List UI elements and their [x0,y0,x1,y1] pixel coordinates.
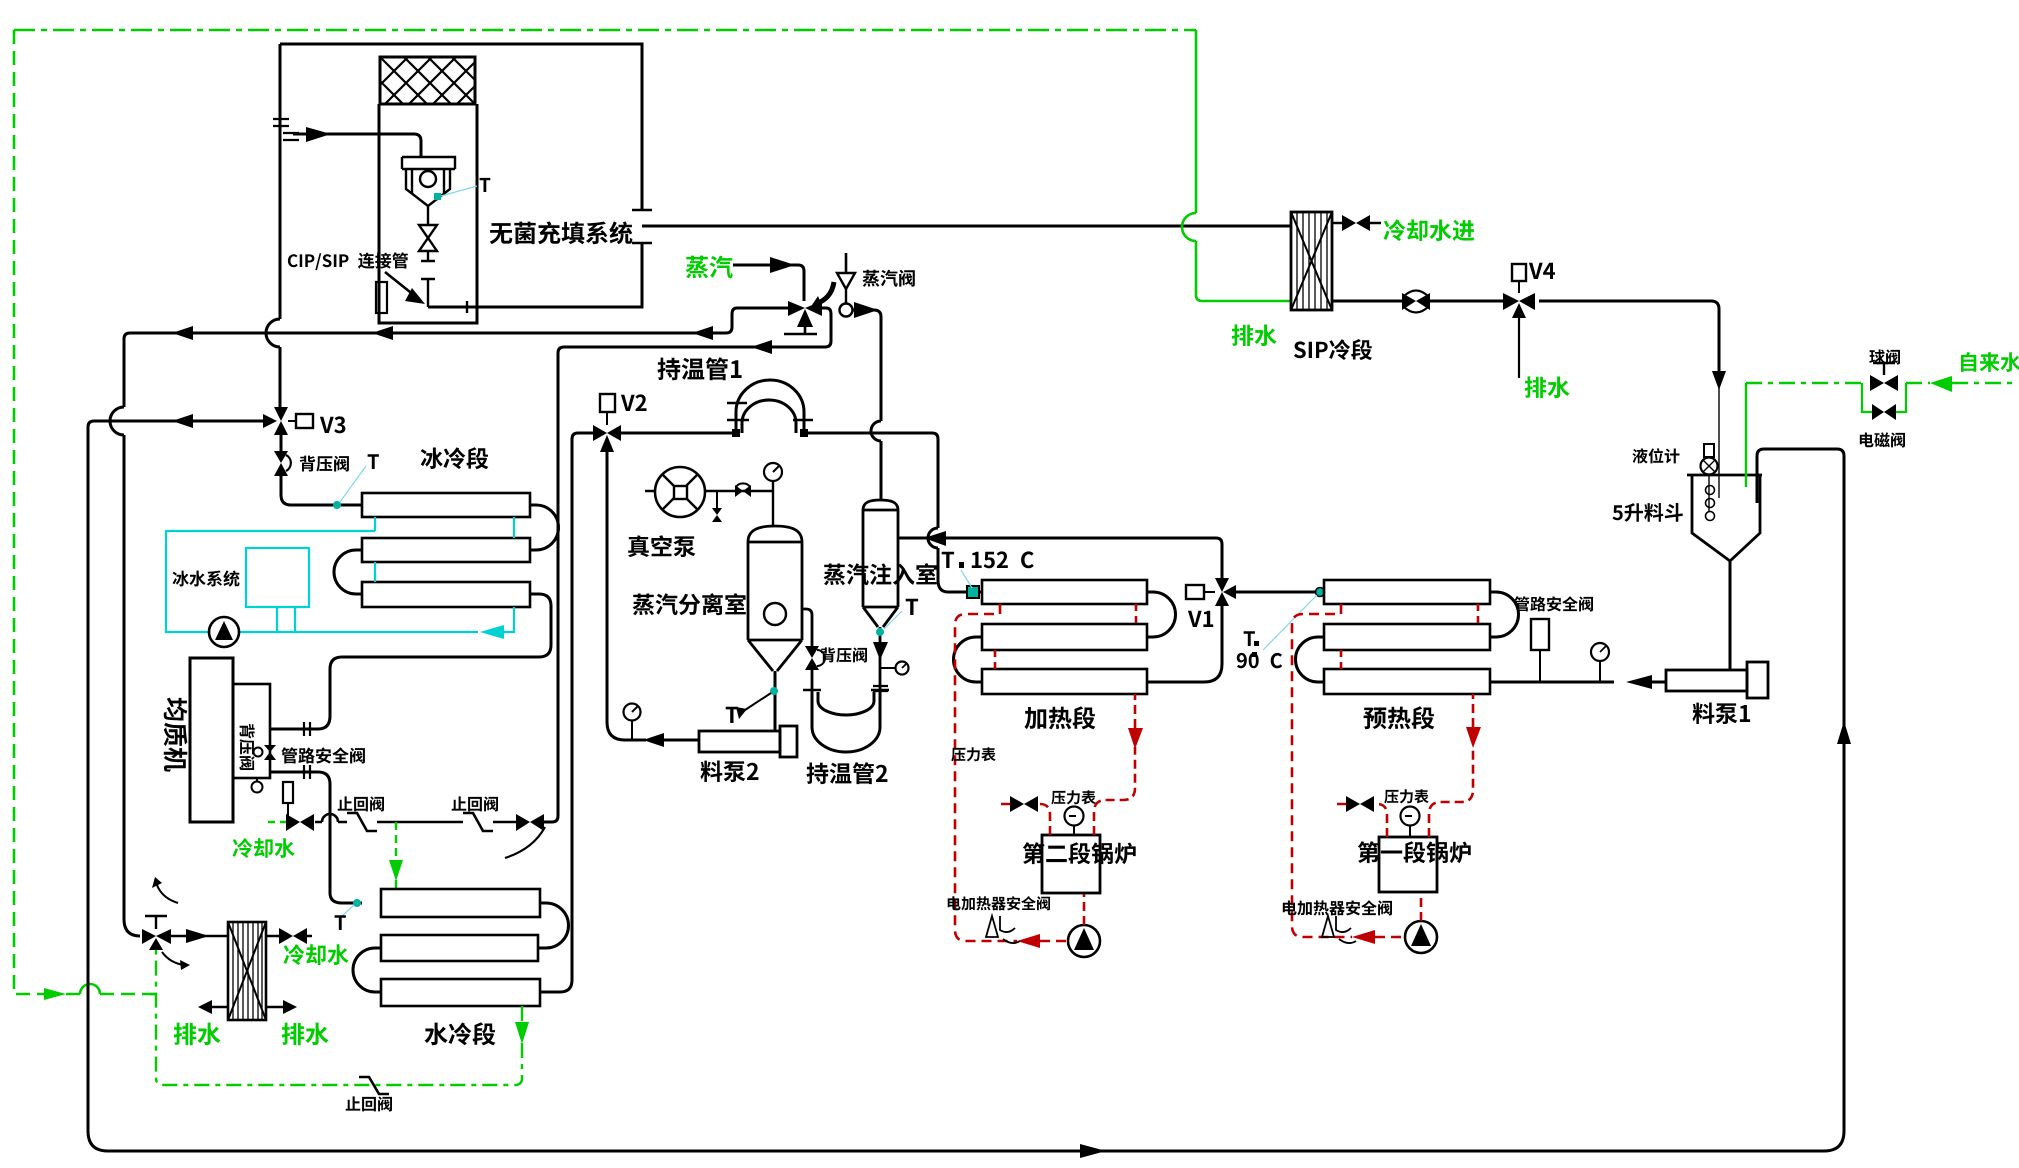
homogenizer head block [233,684,270,778]
label 管路安全阀 [1514,596,1593,611]
green hop over black line x=90 [80,984,100,994]
hop of injection feed riser over chamber return line [928,528,938,548]
vacuum pump [655,467,705,517]
green tap water line with ball valve and bypass [1746,382,2017,384]
pressure gauge on pump line [1599,661,1601,682]
through valve after SIP cooler [1402,293,1416,310]
boiler 2 supply up to heating tube3 [1094,694,1135,835]
back pressure valve below V3 [274,451,288,463]
label 90 C [1237,653,1282,668]
feed pump 2 [699,731,780,752]
small drain valve under vacuum line [716,491,718,508]
label 压力表 [951,747,995,761]
steam control valve (angle) [845,253,848,273]
label 水冷段 [425,1022,496,1045]
hop of cooling line over vertical pipe [322,814,338,822]
inlet arrow [306,127,331,142]
label V2 [621,394,647,411]
node: injection outlet temperature dot [876,628,884,636]
level gauge [1704,444,1714,457]
valve V1 (3-way) [1215,578,1229,592]
90C degree dot and T dot [1254,641,1259,646]
homogenizer bottom port to water cooling coil [270,772,362,903]
flow indicator arcs at drain valve [157,885,178,903]
red arrow on boiler2 return [1017,934,1040,948]
label 152 C [972,551,1034,568]
inlet pipe with flange unions at left [273,119,299,140]
preheat section tube 3 [1324,669,1490,694]
heating section tube 3 [982,669,1147,694]
holding tube 1 inner arch [742,400,796,433]
check valve 2 [463,813,493,831]
heater safety valve symbol 1 [1322,916,1334,937]
pipe from drain valve to drain cooler [171,935,228,938]
label 排水 [282,1023,329,1046]
valve V2 (3-way) [593,425,607,441]
cooling water line with check valves y=822 [315,821,516,824]
thin feed line into hopper with arrow [1718,371,1720,498]
green branch down to water cooling shell [395,822,397,889]
pump to boiler 2 [1083,893,1086,925]
upper return line y=333 to V3 riser [124,308,788,936]
label 压力表 [1051,790,1095,804]
CIP/SIP connection tee [421,279,435,307]
filler inner tall cabinet [379,104,477,323]
label 蒸汽分离室 [633,593,746,615]
label T [726,707,738,723]
pump to boiler 1 [1420,892,1423,921]
water coil left bend tube2-tube3 [353,948,381,992]
green drain from water cooling shell [156,948,522,1085]
node: preheat outlet temperature dot [1316,588,1325,597]
CIP/SIP hose diagonal [385,272,420,300]
CIP/SIP stub pipe [376,282,387,313]
label 第二段锅炉 [1023,842,1136,864]
wire: green CIP left vertical dash line [14,30,156,994]
arrows on upper return line [692,326,713,340]
preheat right bend tube1-tube2 [1490,592,1519,637]
V4 drain line [1518,318,1520,378]
crosshatch filter rect in filler [380,57,475,104]
flow arrow on injection outlet [873,642,888,660]
red hot water circuit of heating section: tube1 stub to left down line [955,604,1017,941]
boiler 1 vent line with valve [1337,804,1387,837]
preheat left bend tube2-tube3 [1296,637,1325,682]
drain cooler outlet valve [266,935,312,938]
node: separator temperature dot [770,687,778,695]
vacuum line [645,490,773,492]
label 电磁阀 [1860,432,1905,447]
pressure gauge on pump2 line [631,721,633,740]
cooling water inlet valve [286,814,300,831]
label T [906,599,918,615]
heating section tube 1 [982,580,1147,604]
water cooling coil tube 2 [381,935,538,961]
preheat section tube 1 [1324,580,1490,604]
V1 to preheat section [1236,591,1324,594]
label 压力表 [1384,789,1428,803]
holding tube flange ticks [727,403,813,420]
hopper (5L) [1687,475,1762,561]
hop arc of left pipe over return line [266,319,280,347]
steam separation chamber vessel [748,526,802,671]
ice cooling coil tube 2 [362,538,530,562]
V2 bottom port down to pump 2 line [607,452,699,740]
green feed water line into hopper [1745,383,1747,487]
drain 3-way valve bottom left [142,929,156,944]
holding tube 2 flange ticks [803,689,889,691]
hopper outlet to feed pump 1 [1729,561,1732,670]
label 背压阀 [240,724,255,770]
label 无菌充填系统 [490,221,633,244]
tick on box bottom pipe [466,301,468,313]
label 排水 [1232,324,1277,346]
label T [942,552,954,568]
ice water piping [166,517,514,632]
label 液位计 [1632,448,1679,463]
flange unions on homogenizer bottom port [304,765,310,779]
label 冰冷段 [421,447,489,469]
label 料泵2 [701,761,759,783]
red circuit preheat: tube1 stub down left [1292,604,1352,937]
label 球阀 [1869,349,1900,364]
T152 subscript dot [959,562,964,568]
back pressure valve at separator [805,646,819,658]
label 冷却水 [284,944,349,965]
label T [480,178,491,192]
cyan arrow on ice water return [480,625,504,639]
label 管路安全阀 [282,747,365,763]
box left vertical pipe with hop over y=333 line [279,44,282,408]
label 电加热器安全阀 [1283,900,1392,915]
hop of inner-left riser over y=421 line [110,407,124,435]
label 排水 [1525,376,1570,398]
label 5升料斗 [1613,503,1683,522]
line safety valve symbol [283,782,293,803]
gauge under homogenizer head [256,778,258,782]
label 排水 [174,1023,221,1046]
aseptic filler box outline [280,44,642,307]
ice coil right bend tube1-tube2 [530,505,559,550]
node: nozzle temperature dot [434,193,441,200]
label 持温管2 [807,762,888,784]
red line arrow segment to pump [1040,940,1068,943]
preheat tube3 line to feed pump 1 [1490,681,1666,684]
chamber return line from heater [898,538,1222,578]
ice water pump [209,617,239,647]
SIP cooling exchanger [1291,212,1332,310]
flange unions on injection outlet [873,686,888,691]
small inline valve on vacuum line [735,485,743,497]
label 蒸汽注入室 [824,563,937,585]
valve V4 (3-way) [1503,293,1519,310]
union flanges on box right edge [632,210,652,243]
label 冷却水进 [1384,219,1475,241]
water coil right bend tube1-tube2 [538,903,569,948]
label 均质机 [164,698,188,772]
holding tube 2 outer U [812,692,880,752]
shutoff valve on cooling line right [516,814,530,831]
boiler 1 pressure gauge [1409,825,1411,837]
holding tube 1 outer arch [736,380,804,433]
green cooling water stub [268,821,286,823]
steam injection chamber vessel [863,500,898,627]
steam 3-way valve [788,301,805,316]
pipe from back pressure valve to ice cooling coil [281,476,362,505]
label 止回阀 [452,796,498,811]
holding tube 2 left leg [811,670,814,692]
boiler 1 supply up to preheat tube3 [1429,694,1473,837]
node: ice section inlet temperature dot [333,501,341,509]
green arrow right at bottom-left junction [44,988,66,1000]
heating coil right bend tube1-tube2 [1147,592,1176,637]
label 第一段锅炉 [1358,841,1471,863]
boiler 2 circulation pump [1068,925,1100,957]
label SIP冷段 [1294,339,1372,360]
label 自来水 [1961,352,2019,372]
main pipe filler to SIP cooler [642,225,1291,228]
label 蒸汽阀 [863,270,915,287]
line safety valve on pump line [1539,650,1541,682]
label 冰水系统 [173,570,240,586]
label V1 [1188,611,1213,627]
boiler 1 circulation pump [1405,921,1437,953]
flange unions on homogenizer top port [304,722,310,736]
label 真空泵 [628,535,695,557]
label 背压阀 [821,647,867,662]
node: heating outlet temperature square [967,586,979,598]
label V3 [320,416,346,433]
ice coil left bend tube2-tube3 [334,550,362,594]
arrow on bottom product line [1080,1144,1106,1158]
label T [335,915,346,930]
gauge branch on injection outlet [881,667,895,669]
heating section tube 2 [982,624,1147,650]
check valve 1 [347,813,377,831]
ice coil outlet down to homogenizer top port [270,594,551,729]
valve below nozzle [427,206,429,225]
V3 feed line y=421 and outer product loop to hopper [88,421,1844,1151]
heating tube3 to valve V1 [1147,606,1222,682]
valve V3 (3-way) [274,407,288,421]
boiler 2 pressure gauge [1073,825,1075,835]
ice cooling coil tube 3 [362,582,530,607]
steam line to injection chamber [853,310,881,501]
cooling water inlet valve at SIP cooler [1332,222,1381,225]
red shell interconnects preheat coil [1341,604,1478,669]
boiler 2 (second stage) [1042,835,1100,893]
red shell interconnects heating coil [995,604,1136,669]
injection chamber outlet into holding tube 2 [879,627,882,692]
water coil outlet riser to V2 [540,433,593,992]
label 止回阀 [338,796,384,811]
feed pump 1 [1666,670,1747,691]
water cooling coil tube 1 [381,889,540,917]
boiler 2 vent line with valve [1001,804,1050,835]
label 蒸汽 [686,256,733,279]
label 料泵1 [1693,703,1751,725]
label 背压阀 [300,456,349,472]
second return line y=347 from steam valve to right loop riser [544,308,831,822]
label 加热段 [1025,706,1096,729]
homogenizer body [190,658,233,822]
solenoid valve [1872,404,1884,420]
green hop over main pipe [1182,213,1196,241]
label T [1244,631,1255,646]
boiler 1 (first stage) [1379,837,1437,892]
ball valve [1870,375,1884,391]
label CIP/SIP 连接管 [288,252,408,270]
curved actuator arrow at steam valve [816,282,834,304]
solenoid bypass [1862,383,1906,412]
label 预热段 [1364,706,1435,729]
arrow on y=347 line [751,340,772,354]
label 持温管1 [658,357,742,380]
holding tube 2 inner U [818,692,874,715]
valve lever diagonal [505,827,545,858]
vacuum gauge over separator [772,481,774,527]
water cooling coil tube 3 [381,979,540,1006]
small back pressure valve on head block [264,745,276,752]
heater safety valve symbol 2 [986,916,998,937]
SIP outlet line to V4 [1332,301,1719,371]
ice cooling coil tube 1 [362,493,530,517]
drain cooler hatched exchanger [228,922,266,1020]
arrow up on right product riser [1837,721,1851,744]
green junction to left loop [150,993,156,995]
green riser from top line to SIP cooler with hop [1196,30,1291,301]
label T [368,454,379,469]
separator outlet to pump 2 [774,671,777,731]
ice water system box [246,548,309,607]
wire: green CIP supply top dash-dot line [14,29,1196,32]
filling nozzle [402,157,455,206]
drain cooler bottom arrows [210,1006,285,1009]
label 止回阀 [346,1096,392,1111]
holding tube 1 baseline [621,433,982,592]
steam inlet line [733,265,804,301]
label 电加热器安全阀 [948,896,1050,910]
label 冷却水 [233,838,295,858]
preheat section tube 2 [1324,624,1490,650]
check valve on green drain line [359,1077,389,1094]
separator side port to back pressure valve [802,609,812,646]
arrow on y=421 line [172,414,193,428]
heating coil left bend tube2-tube3 [954,637,983,682]
hop of steam line over holding tube line [871,421,881,441]
label V4 [1529,263,1555,279]
node: water cooling inlet temperature dot [353,899,361,907]
